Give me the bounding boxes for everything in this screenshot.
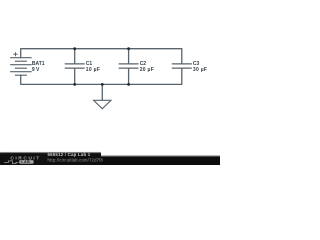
svg-text:10 µF: 10 µF <box>86 67 100 73</box>
svg-text:9 V: 9 V <box>32 67 40 73</box>
svg-text:665512 / Cap Lab 1: 665512 / Cap Lab 1 <box>48 152 91 157</box>
svg-text:http:​//circuitlab.com/72d7f8: http:​//circuitlab.com/72d7f8 <box>48 158 104 163</box>
svg-text:20 µF: 20 µF <box>140 67 154 73</box>
svg-text:LAB: LAB <box>21 160 30 164</box>
svg-text:30 µF: 30 µF <box>193 67 207 73</box>
